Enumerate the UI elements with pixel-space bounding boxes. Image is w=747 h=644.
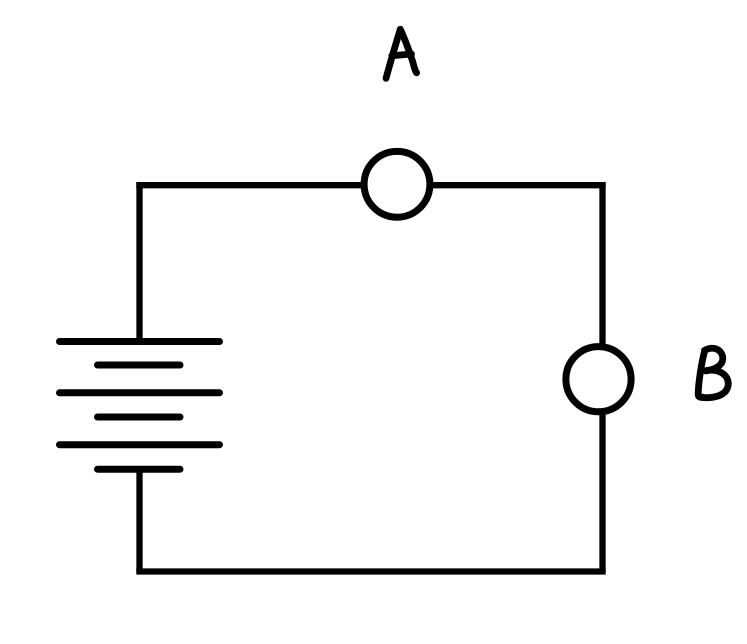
wire: left vertical upper (battery + up to top wire) xyxy=(136,182,142,344)
battery BT1: plate 1 long (top, +) xyxy=(60,338,220,345)
battery BT1: plate 4 short xyxy=(98,414,181,421)
wire: bottom horizontal xyxy=(136,568,605,574)
meter B: circle symbol on right wire xyxy=(566,347,631,412)
battery BT1: plate 6 short (bottom, -) xyxy=(98,466,181,473)
label A (handwritten letter) xyxy=(386,29,417,78)
label B (handwritten letter) xyxy=(698,348,728,397)
battery BT1: plate 2 short xyxy=(98,362,181,369)
wire: top horizontal xyxy=(136,182,605,188)
battery BT1: plate 3 long xyxy=(60,389,220,396)
wire: right vertical xyxy=(599,182,605,572)
meter A: circle symbol on top wire xyxy=(364,151,430,217)
battery BT1: plate 5 long xyxy=(60,441,220,448)
wire: left vertical lower (battery - down to bottom wire) xyxy=(136,469,142,572)
